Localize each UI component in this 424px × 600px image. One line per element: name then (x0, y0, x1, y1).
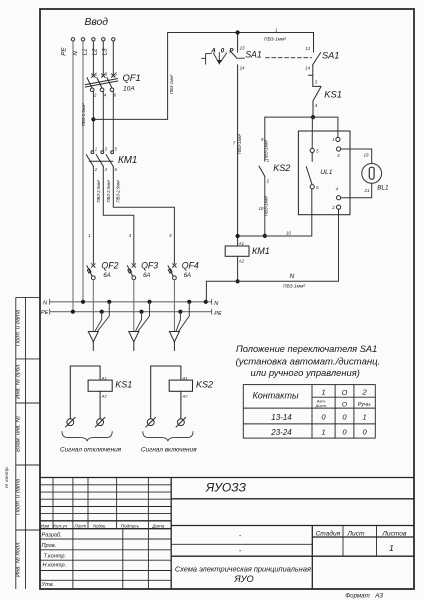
svg-text:Т.контр.: Т.контр. (44, 553, 67, 559)
UL1 terminal 5 (310, 148, 314, 152)
wire KM1 pole2 to QF3 (103, 167, 134, 264)
svg-text:KS2: KS2 (196, 380, 213, 390)
svg-text:A2: A2 (238, 258, 245, 263)
svg-text:ПВЗ-2,5мм²: ПВЗ-2,5мм² (106, 179, 111, 202)
SA1 position table (243, 385, 375, 439)
wire N tap lamp1 (98, 302, 110, 331)
SA1 position indicator (202, 53, 227, 65)
svg-text:0: 0 (321, 413, 326, 422)
svg-text:3: 3 (129, 233, 132, 238)
relay contact KS1 (313, 86, 321, 117)
UL1 terminal 3 (337, 147, 341, 151)
svg-text:-: - (239, 548, 242, 555)
svg-text:4: 4 (105, 167, 108, 172)
svg-text:Инв. № подл.: Инв. № подл. (16, 541, 22, 577)
svg-text:PE: PE (214, 311, 222, 317)
svg-text:ПВЗ-1мм²: ПВЗ-1мм² (264, 195, 269, 216)
wire L1 top (92, 41, 94, 74)
wire QF4 to lamp3 (173, 280, 175, 332)
svg-text:ПВЗ-1мм²: ПВЗ-1мм² (169, 74, 174, 94)
svg-text:Кол.уч: Кол.уч (53, 524, 67, 529)
svg-text:Подпись: Подпись (121, 524, 140, 529)
svg-text:13-14: 13-14 (271, 413, 292, 422)
relay contact KS2 (259, 166, 265, 236)
node junction KS2 to coil bus (263, 234, 267, 238)
svg-text:ЯУО: ЯУО (233, 574, 253, 584)
svg-text:или ручного управления): или ручного управления) (251, 367, 360, 378)
wire N vertical (82, 41, 84, 302)
svg-text:Подп. и дата: Подп. и дата (16, 478, 22, 515)
UL1 terminal 2 (337, 205, 341, 209)
svg-text:19: 19 (364, 153, 369, 158)
svg-text:ЯУОЗЗ: ЯУОЗЗ (205, 481, 247, 495)
svg-text:L3: L3 (101, 48, 108, 56)
circuit breaker QF1 (85, 74, 118, 92)
terminal N (81, 38, 84, 41)
svg-text:Контакты: Контакты (253, 390, 300, 400)
svg-text:1: 1 (88, 233, 90, 238)
PE bus (50, 309, 212, 314)
svg-text:10А: 10А (123, 86, 135, 93)
luminaire EL3 (169, 332, 179, 351)
node junction L1 tap (91, 117, 95, 121)
svg-text:13: 13 (305, 46, 310, 51)
svg-text:(установка автомат./дистанц.: (установка автомат./дистанц. (236, 356, 381, 367)
node junction N lamp1 (107, 300, 111, 304)
svg-text:ПВЗ-2,5мм²: ПВЗ-2,5мм² (96, 179, 101, 202)
svg-text:A2: A2 (101, 394, 108, 399)
svg-text:1: 1 (321, 428, 325, 437)
svg-text:2: 2 (331, 205, 335, 210)
svg-text:Разраб.: Разраб. (42, 532, 62, 538)
svg-text:1: 1 (95, 147, 97, 152)
svg-text:PE: PE (41, 310, 49, 316)
svg-text:4: 4 (315, 103, 318, 108)
wire N tap lamp3 (179, 302, 189, 331)
wire QF3 to lamp2 (133, 280, 135, 332)
terminal PE (71, 38, 74, 41)
wire to UL1 pin5 (311, 117, 313, 148)
svg-text:23: 23 (239, 45, 245, 50)
svg-text:6А: 6А (143, 273, 150, 279)
contactor contacts KM1 (86, 151, 113, 167)
svg-text:Дата: Дата (151, 524, 165, 529)
breaker QF4 (168, 264, 176, 280)
svg-text:N: N (290, 273, 295, 280)
svg-text:Взам. инв. №: Взам. инв. № (16, 416, 22, 452)
svg-text:1: 1 (275, 27, 278, 32)
svg-text:0: 0 (362, 428, 367, 437)
wire N control line (206, 209, 338, 302)
node junction coil N (236, 279, 240, 283)
terminal L3 (112, 38, 115, 41)
luminaire EL2 (129, 332, 139, 351)
wire QF2 to lamp1 (92, 280, 94, 332)
wire UL1 pin4 to BL1 (341, 184, 372, 198)
node junction SA1 branch (236, 30, 240, 34)
wire to KS2 (264, 117, 266, 161)
svg-text:5: 5 (115, 71, 118, 76)
svg-text:A1: A1 (182, 376, 188, 381)
svg-text:1: 1 (95, 71, 97, 76)
svg-text:0: 0 (342, 428, 347, 437)
svg-text:2: 2 (94, 167, 98, 172)
svg-text:PE: PE (61, 47, 68, 56)
node junction PE lamp1 (100, 310, 104, 314)
wire KM1 pole1 down (92, 167, 94, 264)
node junction coil top (236, 234, 240, 238)
svg-text:Н. контр.: Н. контр. (4, 466, 10, 488)
wire PE tap lamp1 (95, 312, 102, 331)
node junction N input (81, 300, 85, 304)
svg-text:О: О (342, 388, 348, 397)
N bus (50, 299, 212, 304)
node junction N lamp3 (187, 300, 191, 304)
svg-text:Изм: Изм (41, 524, 50, 529)
breaker QF2 (87, 264, 95, 280)
svg-text:№док.: №док. (93, 524, 107, 529)
svg-text:А 0 Р: А 0 Р (210, 47, 235, 54)
svg-text:6А: 6А (184, 273, 191, 279)
svg-text:3: 3 (315, 79, 318, 84)
wire UL1 pin6 down (311, 188, 313, 190)
wire PE vertical (72, 41, 74, 312)
relay coil KS2 (151, 366, 193, 419)
node junction N lamp2 (147, 300, 151, 304)
node junction PE input (71, 310, 75, 314)
svg-text:ПВЗ-1мм²: ПВЗ-1мм² (237, 133, 242, 154)
brace KS2 (143, 432, 193, 441)
svg-text:KS1: KS1 (115, 380, 132, 390)
UL1 terminal 6 (310, 185, 314, 189)
UL1 internal contact (306, 153, 312, 185)
svg-text:-: - (239, 533, 242, 540)
svg-text:3: 3 (337, 153, 340, 158)
wire L3 top (112, 41, 114, 74)
svg-text:0: 0 (342, 413, 347, 422)
svg-text:14: 14 (305, 66, 310, 71)
wire control bus horizontal (265, 116, 338, 118)
svg-text:Подп. и дата: Подп. и дата (16, 309, 22, 346)
svg-text:Ввод: Ввод (85, 17, 109, 28)
svg-text:Схема электрическая принципиал: Схема электрическая принципиальная (175, 564, 311, 573)
svg-text:21: 21 (364, 188, 370, 193)
breaker QF3 (127, 264, 135, 280)
wire L3 QF1 to KM1 (112, 92, 114, 151)
svg-text:6А: 6А (103, 273, 110, 279)
svg-text:Лист: Лист (74, 524, 87, 529)
svg-text:KS1: KS1 (324, 88, 342, 99)
svg-text:QF4: QF4 (182, 261, 199, 271)
wire to UL1 pin1 (337, 117, 339, 137)
svg-text:Утв.: Утв. (41, 582, 55, 588)
svg-text:ПВЗ-2,5мм²: ПВЗ-2,5мм² (81, 103, 86, 126)
KS1 output terminal a (66, 417, 76, 427)
svg-text:ПВЗ-1мм²: ПВЗ-1мм² (283, 284, 305, 290)
svg-text:N: N (214, 301, 219, 307)
title block (40, 478, 414, 590)
photo relay UL1 box (298, 131, 350, 215)
svg-text:ПВЗ-1мм²: ПВЗ-1мм² (264, 139, 269, 160)
wire N tap lamp2 (138, 302, 149, 331)
selector switch SA1 section B (309, 33, 321, 87)
wire PE tap lamp3 (176, 312, 180, 331)
svg-text:A1: A1 (101, 376, 107, 381)
svg-text:7: 7 (233, 141, 236, 146)
svg-text:1: 1 (321, 388, 325, 397)
wire L2 top (102, 41, 104, 74)
node junction PE lamp3 (178, 310, 182, 314)
svg-text:A1: A1 (238, 241, 244, 246)
UL1 terminal 4 (337, 196, 341, 200)
svg-text:N: N (43, 300, 48, 306)
svg-text:5: 5 (316, 149, 319, 154)
svg-text:4: 4 (336, 187, 339, 192)
svg-text:1: 1 (389, 543, 394, 553)
terminal L1 (92, 38, 95, 41)
left margin column (16, 297, 40, 589)
wire KM1 pole3 to QF4 (113, 167, 174, 264)
svg-text:QF2: QF2 (101, 261, 118, 271)
svg-text:A2: A2 (182, 394, 189, 399)
svg-text:Сигнал отключения: Сигнал отключения (60, 446, 122, 453)
svg-text:КМ1: КМ1 (252, 246, 270, 256)
wire coil bus (238, 189, 312, 236)
svg-text:3: 3 (105, 147, 108, 152)
svg-text:BL1: BL1 (377, 185, 389, 192)
svg-text:6: 6 (115, 167, 118, 172)
svg-text:5: 5 (169, 233, 172, 238)
svg-text:1: 1 (362, 413, 366, 422)
wire coil to N (237, 256, 239, 281)
svg-text:QF1: QF1 (123, 72, 141, 83)
svg-text:Формат: Формат (345, 592, 370, 599)
svg-text:3: 3 (105, 71, 108, 76)
svg-text:Стадия: Стадия (316, 529, 341, 537)
svg-text:1: 1 (332, 137, 334, 142)
svg-text:UL1: UL1 (320, 169, 332, 176)
svg-text:Инв. № дубл.: Инв. № дубл. (16, 363, 22, 399)
terminal L2 (102, 38, 105, 41)
svg-text:KS2: KS2 (273, 163, 290, 173)
KS1 output terminal b (95, 417, 105, 427)
wire PE tap lamp2 (136, 312, 142, 331)
svg-text:Сигнал включения: Сигнал включения (141, 446, 197, 453)
wire L2 QF1 to KM1 (102, 92, 104, 151)
svg-text:24: 24 (239, 65, 245, 70)
svg-text:2: 2 (361, 388, 367, 397)
UL1 terminal 1 (336, 137, 340, 141)
svg-text:Пров.: Пров. (42, 543, 57, 549)
svg-text:10: 10 (286, 230, 291, 235)
svg-text:Н.контр.: Н.контр. (43, 563, 67, 569)
svg-text:4: 4 (104, 93, 107, 98)
KS2 output terminal b (176, 417, 186, 427)
svg-text:SA1: SA1 (245, 49, 262, 59)
svg-text:6: 6 (316, 185, 319, 190)
contactor coil KM1 (225, 246, 249, 256)
svg-text:Листов: Листов (381, 530, 407, 537)
node junction control bus (311, 115, 315, 119)
svg-text:2: 2 (266, 178, 270, 183)
svg-text:23-24: 23-24 (270, 428, 292, 437)
svg-text:ПВЗ-2,5мм²: ПВЗ-2,5мм² (116, 179, 121, 202)
relay coil KS1 (70, 366, 112, 419)
svg-text:1: 1 (267, 158, 269, 163)
selector switch SA1 section A (230, 33, 237, 247)
svg-text:Дист.: Дист. (315, 403, 327, 408)
node junction N coil return (204, 300, 208, 304)
svg-text:Лист: Лист (347, 530, 365, 537)
mechanical link dashed (237, 57, 245, 59)
svg-text:Положение переключателя SA1: Положение переключателя SA1 (236, 344, 377, 354)
svg-text:5: 5 (115, 147, 118, 152)
wire tap to control circuit (93, 33, 313, 120)
brace KS1 (62, 432, 112, 441)
svg-text:SA1: SA1 (322, 50, 339, 60)
wire L1 QF1 to KM1 (92, 92, 94, 151)
svg-text:А3: А3 (374, 592, 383, 599)
wire UL1 pin3 to BL1 (341, 149, 372, 163)
svg-text:Ручн.: Ручн. (358, 402, 372, 408)
svg-text:КМ1: КМ1 (118, 155, 137, 166)
svg-text:О: О (342, 401, 347, 408)
svg-text:L2: L2 (92, 48, 99, 56)
svg-text:QF3: QF3 (141, 261, 158, 271)
KS2 output terminal a (146, 417, 156, 427)
node junction PE lamp2 (139, 310, 143, 314)
svg-text:ПВЗ-1мм²: ПВЗ-1мм² (264, 37, 286, 43)
luminaire EL1 (88, 332, 98, 351)
svg-text:6: 6 (114, 93, 117, 98)
photocell BL1 (362, 164, 382, 184)
